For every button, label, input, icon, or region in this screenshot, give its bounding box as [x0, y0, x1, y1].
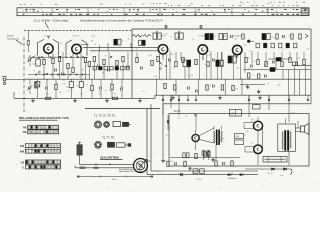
- switch row line: [162, 170, 258, 172]
- resistor R11: [122, 56, 124, 61]
- resistor R22: [151, 60, 153, 65]
- speaker jack icon: [301, 124, 310, 135]
- svg-text:10n: 10n: [37, 85, 40, 87]
- detector component row: [256, 43, 297, 48]
- resistor R26: [195, 59, 197, 64]
- svg-text:2k: 2k: [247, 131, 249, 133]
- resistor R36: [258, 74, 260, 79]
- capacitor C21: [264, 75, 266, 78]
- wire junction dot: [95, 164, 96, 165]
- svg-text:0,1: 0,1: [43, 74, 45, 76]
- ground symbol T7: [162, 159, 164, 161]
- capacitor C12: [230, 35, 232, 38]
- svg-text:1M: 1M: [91, 41, 94, 43]
- oscillator coil L3: [36, 82, 40, 87]
- resistor R8: [93, 56, 95, 61]
- speaker link wire: [147, 160, 151, 162]
- resistor R37: [174, 85, 176, 90]
- svg-text:70: 70: [94, 43, 96, 45]
- ground symbol 5: [172, 95, 174, 97]
- svg-text:100: 100: [59, 92, 62, 94]
- switch row AM: [28, 130, 59, 134]
- resistor R20: [299, 34, 301, 39]
- svg-text:0,5: 0,5: [267, 83, 269, 85]
- coil L4: [69, 82, 73, 88]
- svg-text:50k: 50k: [163, 160, 166, 162]
- capacitor C11: [120, 88, 122, 91]
- drop wire A: [146, 109, 148, 175]
- svg-text:100: 100: [161, 65, 164, 67]
- svg-text:5p: 5p: [173, 68, 175, 70]
- tube side view A: [113, 122, 121, 127]
- resistor R6: [84, 57, 86, 62]
- capacitor C8: [126, 66, 128, 69]
- capacitor C22: [187, 87, 189, 90]
- svg-text:AM: AM: [23, 131, 27, 134]
- tone cap C64: [235, 140, 244, 145]
- mains transformer enclosure: [278, 124, 296, 152]
- electrolytic C66: [203, 150, 205, 156]
- IF transformer B5: [262, 34, 266, 40]
- svg-text:Si-Dio.: Si-Dio.: [268, 173, 274, 175]
- svg-text:T5 EABC80: T5 EABC80: [233, 35, 243, 38]
- rectifier diode D3: [240, 174, 243, 176]
- svg-text:12k: 12k: [170, 161, 173, 163]
- AF wire d: [240, 84, 265, 86]
- resistor R15: [45, 97, 50, 99]
- svg-text:0,5: 0,5: [176, 37, 178, 39]
- svg-text:100: 100: [81, 70, 84, 72]
- svg-text:100: 100: [98, 93, 101, 95]
- svg-text:KW 29: KW 29: [7, 36, 14, 38]
- right mid wiring: [137, 52, 237, 61]
- AF wire b: [292, 65, 311, 67]
- switch contact g: [165, 65, 167, 67]
- fuse box: [263, 157, 287, 163]
- resistor R17: [242, 34, 244, 39]
- switch contact e: [160, 62, 162, 64]
- svg-text:70: 70: [254, 122, 256, 124]
- top bus terminal 1: [165, 26, 167, 28]
- svg-text:70: 70: [186, 116, 188, 118]
- tube socket view C: [95, 141, 102, 148]
- padder C9: [45, 87, 47, 90]
- tube T9 pin wires: [245, 146, 255, 148]
- svg-text:12k: 12k: [278, 84, 281, 86]
- svg-text:MW: MW: [20, 152, 25, 154]
- right section top bus: [132, 28, 311, 30]
- outer AF box top: [163, 103, 311, 105]
- svg-text:100: 100: [298, 38, 301, 40]
- svg-text:0,02: 0,02: [297, 58, 300, 60]
- resistor R5: [72, 67, 74, 72]
- speaker feed wire 2: [75, 167, 134, 169]
- svg-text:70: 70: [86, 84, 88, 86]
- svg-text:8p: 8p: [223, 138, 225, 140]
- capacitor C14: [140, 67, 142, 70]
- svg-text:2k: 2k: [192, 39, 194, 41]
- bandfilter box pair B: [216, 60, 219, 67]
- resistor R18: [276, 34, 278, 39]
- capacitor C68: [222, 162, 224, 165]
- ground symbol 4: [139, 98, 141, 100]
- resistor R1: [43, 59, 45, 64]
- resistor R30: [257, 59, 259, 64]
- svg-text:SKALENTRIEB: SKALENTRIEB: [100, 155, 119, 159]
- resistor R24: [175, 61, 177, 66]
- svg-text:5k: 5k: [254, 61, 256, 63]
- resistor R27: [207, 61, 209, 66]
- tube socket view A: [94, 121, 101, 128]
- anode supply rail: [24, 78, 311, 80]
- svg-text:1M: 1M: [247, 88, 250, 90]
- contact row wire upper: [28, 56, 88, 58]
- border tap component: [27, 41, 29, 46]
- left section risers: [60, 52, 129, 79]
- svg-text:2k: 2k: [136, 49, 138, 51]
- svg-text:70: 70: [209, 84, 211, 86]
- amplifier box: [169, 114, 309, 167]
- svg-text:25: 25: [195, 171, 197, 173]
- svg-text:10n: 10n: [70, 89, 73, 91]
- T7 anode wire: [199, 128, 214, 136]
- IF transformer B2: [175, 33, 179, 39]
- svg-text:19 m: 19 m: [112, 179, 117, 181]
- mains switch box A: [193, 169, 198, 174]
- svg-text:T3 EF89: T3 EF89: [159, 36, 166, 38]
- ratio detector box A: [276, 58, 281, 62]
- IF riser 2: [107, 43, 109, 51]
- svg-text:0,1/250: 0,1/250: [196, 179, 201, 181]
- tuning capacitor C2: [28, 83, 33, 94]
- svg-text:0,02: 0,02: [62, 84, 65, 86]
- svg-text:0,25: 0,25: [154, 76, 157, 78]
- section divider wire: [131, 29, 133, 98]
- svg-text:T2 EC92: T2 EC92: [72, 36, 79, 38]
- svg-text:50k: 50k: [231, 56, 234, 58]
- tube T5: [233, 45, 242, 54]
- resistor R39: [221, 85, 223, 90]
- svg-text:E: E: [22, 167, 24, 169]
- ground symbol 1: [32, 98, 34, 100]
- svg-text:25: 25: [282, 49, 284, 51]
- svg-text:25: 25: [143, 91, 145, 93]
- output tube T7: [192, 134, 199, 141]
- resistor R32: [281, 61, 283, 66]
- resistor R23: [157, 56, 159, 61]
- resistor R3: [58, 56, 60, 61]
- svg-text:Teleskopant.: Teleskopant.: [7, 37, 20, 40]
- svg-text:Anschlußbezeichnungen von unte: Anschlußbezeichnungen von unten gesehen …: [80, 20, 164, 23]
- chassis bus right: [155, 94, 311, 96]
- capacitor C4: [54, 69, 56, 72]
- ground symbol 8: [189, 166, 191, 168]
- IF grid wire 1: [83, 47, 158, 49]
- loudspeaker LS1: [134, 159, 148, 173]
- svg-text:WELLENSCHALTER-KONTAKTE TV58: WELLENSCHALTER-KONTAKTE TV58: [19, 116, 69, 120]
- ground symbol 11: [258, 90, 260, 92]
- svg-text:70: 70: [105, 55, 107, 57]
- svg-text:8p: 8p: [165, 34, 167, 36]
- switch contact c: [46, 73, 48, 75]
- resistor R44: [231, 161, 233, 166]
- AF wire a: [268, 58, 290, 60]
- coil L2: [34, 82, 37, 88]
- power section wiring: [163, 95, 289, 165]
- left bus end: [13, 92, 15, 98]
- svg-text:47: 47: [91, 67, 93, 69]
- svg-text:100: 100: [62, 80, 65, 82]
- svg-text:25: 25: [289, 36, 291, 38]
- svg-text:12k: 12k: [66, 87, 69, 89]
- svg-text:2k: 2k: [251, 121, 253, 123]
- svg-text:5p: 5p: [231, 172, 233, 174]
- svg-text:8p: 8p: [220, 140, 222, 142]
- tube T3: [158, 45, 167, 54]
- heater row line: [170, 157, 240, 159]
- svg-text:8p: 8p: [114, 93, 116, 95]
- top bus terminal 2: [200, 26, 202, 28]
- mains transformer Tr2: [282, 119, 291, 166]
- tube T8 pin wires: [244, 122, 255, 124]
- tube side view B: [108, 142, 115, 147]
- tone cap C63: [235, 134, 244, 139]
- capacitor C24: [212, 85, 214, 88]
- right edge wire: [310, 29, 312, 95]
- mains switch box B: [200, 169, 205, 174]
- svg-text:0,1: 0,1: [214, 36, 216, 38]
- svg-text:1M: 1M: [307, 49, 310, 51]
- switch row FM: [28, 125, 59, 129]
- resistor R19: [291, 34, 293, 39]
- svg-text:70: 70: [277, 149, 279, 151]
- switch contact b: [39, 72, 41, 74]
- lower boundary wire: [85, 108, 160, 110]
- resistor R10: [116, 60, 118, 65]
- FM coil L6: [132, 35, 142, 38]
- drop wire B: [150, 104, 152, 171]
- ground symbol 10: [247, 85, 249, 87]
- svg-text:8p: 8p: [209, 51, 211, 53]
- resistor R25: [182, 57, 184, 62]
- resistor R2: [52, 58, 54, 63]
- svg-text:KW: KW: [20, 146, 25, 148]
- svg-text:2k: 2k: [89, 89, 91, 91]
- tube link wire: [262, 128, 264, 148]
- rectifier diode D2: [228, 174, 231, 176]
- feedback box: [230, 110, 242, 117]
- tube T9: [254, 145, 263, 154]
- svg-text:0,02: 0,02: [32, 63, 35, 65]
- svg-text:5p: 5p: [274, 79, 276, 81]
- ground symbol 7: [259, 95, 261, 97]
- output transformer Tr1: [214, 126, 223, 145]
- svg-text:25: 25: [166, 135, 168, 137]
- resistor R43: [215, 161, 217, 166]
- svg-text:0,5: 0,5: [110, 57, 112, 59]
- svg-text:LW: LW: [21, 162, 25, 164]
- svg-text:0,5: 0,5: [240, 78, 242, 80]
- switch row LW: [25, 160, 60, 164]
- svg-text:2k: 2k: [99, 91, 101, 93]
- svg-text:50k: 50k: [181, 33, 184, 35]
- svg-text:10n: 10n: [272, 37, 275, 39]
- coil L5: [79, 82, 83, 88]
- svg-text:100: 100: [236, 68, 239, 70]
- svg-text:10n: 10n: [234, 39, 237, 41]
- svg-text:T1, T3, T5, T8, T9,: T1, T3, T5, T8, T9,: [94, 113, 116, 117]
- resistor R45: [164, 83, 166, 88]
- capacitor C5: [61, 73, 63, 76]
- capacitor C18: [250, 65, 252, 68]
- bus terminals row: [162, 95, 309, 101]
- svg-text:1M: 1M: [76, 85, 79, 87]
- svg-text:5k: 5k: [244, 134, 246, 136]
- svg-text:C63: C63: [236, 136, 239, 138]
- svg-text:1M: 1M: [122, 66, 125, 68]
- tube T4: [198, 45, 207, 54]
- dimension line: [78, 175, 153, 177]
- tube T8: [254, 121, 263, 130]
- switch row E: [25, 165, 60, 169]
- pilot lamp: [180, 173, 183, 176]
- tube T2 cage: [66, 40, 89, 56]
- svg-text:kurz.: kurz.: [280, 174, 284, 177]
- tube socket view B: [104, 122, 110, 128]
- svg-text:100: 100: [235, 88, 238, 90]
- dial scale strip: [17, 8, 309, 16]
- outer AF box left: [162, 104, 164, 159]
- left section top border: [24, 29, 132, 31]
- resistor R16: [112, 97, 117, 99]
- IF transformer B0: [114, 39, 117, 45]
- bandfilter box pair A: [183, 60, 186, 67]
- resistor R38: [206, 85, 208, 90]
- antenna note pointer: [16, 40, 23, 45]
- svg-text:25: 25: [55, 57, 57, 59]
- resistor R46: [232, 85, 234, 90]
- faint header annotations: [20, 2, 305, 5]
- svg-text:2k: 2k: [170, 36, 172, 38]
- svg-text:T9: T9: [251, 143, 253, 145]
- antenna jack: [2, 77, 24, 85]
- IF grid wire 2: [90, 50, 158, 52]
- resistor R9: [103, 59, 105, 64]
- capacitor C23: [195, 90, 197, 93]
- resistor R40: [167, 161, 169, 166]
- junction J1: [195, 114, 197, 116]
- svg-text:25: 25: [66, 67, 68, 69]
- svg-text:0,02: 0,02: [178, 174, 181, 176]
- resistor R34: [303, 59, 305, 64]
- resistor pair Ra: [183, 153, 185, 158]
- resistor R21: [136, 57, 138, 62]
- svg-text:0,25: 0,25: [208, 55, 211, 57]
- chassis bus left: [14, 97, 155, 99]
- electrolytic capacitor C50: [77, 145, 82, 155]
- svg-text:0,02: 0,02: [149, 55, 152, 57]
- ground symbol 3: [106, 98, 108, 100]
- svg-text:50k: 50k: [38, 71, 41, 73]
- switch contact a: [39, 57, 41, 59]
- svg-text:0,5: 0,5: [80, 94, 82, 96]
- ground symbol 6: [219, 95, 221, 97]
- switch row MW: [25, 149, 60, 153]
- capacitor C65: [174, 162, 176, 165]
- scan noise: [2, 2, 319, 191]
- IF transformer B4: [219, 34, 223, 40]
- svg-text:50k: 50k: [224, 36, 227, 38]
- svg-text:11 x1. 19 MHz – 13 kHz wobig: 11 x1. 19 MHz – 13 kHz wobig: [34, 19, 68, 22]
- band filter contact strip: [93, 67, 130, 70]
- svg-text:5k: 5k: [205, 64, 207, 66]
- resistor R35: [248, 73, 250, 78]
- rf wiring: [30, 53, 117, 83]
- bus step: [154, 95, 156, 98]
- AGC diode D6: [167, 121, 169, 123]
- svg-text:0,25: 0,25: [291, 113, 294, 115]
- switch contact f: [160, 68, 162, 70]
- tuning capacitor C1: [28, 55, 33, 66]
- right section risers: [160, 52, 305, 79]
- svg-text:50k: 50k: [244, 45, 247, 47]
- IF transformer B6: [228, 56, 232, 63]
- ratio detector box C: [270, 68, 275, 72]
- resistor R4: [67, 63, 69, 68]
- svg-text:10n: 10n: [121, 86, 124, 88]
- svg-text:0,02: 0,02: [109, 91, 112, 93]
- capacitor C13: [282, 35, 284, 38]
- svg-text:0,5: 0,5: [177, 118, 179, 120]
- pointer to scale: [45, 22, 49, 29]
- resistor R42: [195, 153, 197, 158]
- tube T2: [72, 44, 81, 53]
- resistor R7: [88, 61, 90, 66]
- IF transformer B3: [205, 34, 209, 40]
- speaker feed wire: [80, 163, 134, 165]
- svg-text:25: 25: [234, 167, 236, 169]
- capacitor C19: [272, 61, 274, 64]
- svg-text:25: 25: [60, 43, 62, 45]
- IF riser 3: [130, 43, 132, 48]
- capacitor C16: [187, 65, 189, 68]
- FM coil L7: [143, 35, 151, 38]
- svg-text:50k: 50k: [249, 51, 252, 53]
- rail risers: [156, 79, 242, 95]
- svg-text:10n: 10n: [47, 54, 50, 56]
- resistor R29: [245, 57, 247, 62]
- svg-text:10n: 10n: [46, 93, 49, 95]
- bus1 drop wires: [38, 80, 122, 99]
- coil L1: [36, 59, 41, 66]
- speaker wire: [295, 127, 300, 129]
- volume pot R31: [265, 61, 267, 66]
- svg-text:→ 40 mV: → 40 mV: [171, 111, 181, 113]
- capacitor C10: [99, 87, 101, 90]
- svg-text:47: 47: [105, 90, 107, 92]
- capacitor C20: [295, 63, 297, 66]
- svg-text:70: 70: [102, 73, 104, 75]
- connector lug: [247, 40, 250, 43]
- tube T1: [44, 44, 53, 53]
- switch row KW: [25, 144, 60, 148]
- svg-text:0,5: 0,5: [168, 51, 170, 53]
- capacitor C7: [107, 69, 109, 72]
- mains diode D5: [284, 168, 287, 170]
- electrolytic C67: [208, 150, 210, 156]
- right edge lower: [310, 95, 312, 104]
- contact row wire lower: [28, 74, 90, 76]
